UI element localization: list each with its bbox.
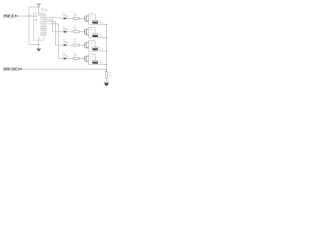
resistor R1 bbox=[73, 13, 79, 19]
svg-text:LED: LED bbox=[63, 42, 67, 44]
wire R5 to ground bbox=[105, 78, 107, 82]
pin 7 stub U1 right bbox=[44, 25, 47, 27]
pin 9 stub U1 right bbox=[44, 29, 47, 31]
transistor Q1 bbox=[85, 14, 93, 25]
pin 4 stub U1 right bbox=[44, 18, 47, 20]
wire R3 to Q3 gate bbox=[79, 44, 84, 46]
pin 10 stub U1 right bbox=[44, 31, 47, 33]
svg-text:11: 11 bbox=[45, 34, 47, 36]
hierarchical label PWM_IN bbox=[3, 15, 18, 19]
svg-text:R5: R5 bbox=[109, 73, 111, 75]
svg-text:PWM_COM_12V: PWM_COM_12V bbox=[4, 68, 23, 71]
wire branch up to VDD bbox=[29, 7, 39, 16]
svg-text:RC1: RC1 bbox=[40, 24, 43, 26]
svg-text:RC3: RC3 bbox=[40, 19, 43, 21]
node junction rail bottom bbox=[106, 69, 107, 70]
node junction rail channel 1 bbox=[106, 24, 107, 25]
op-amp U1 (microcontroller IC) bbox=[34, 13, 45, 40]
svg-text:LED: LED bbox=[63, 55, 67, 57]
connector J2 bbox=[92, 34, 102, 38]
wire J2 to rail bbox=[89, 36, 107, 39]
wire U1 pin to channel 1 bbox=[47, 17, 64, 18]
svg-text:150: 150 bbox=[74, 15, 77, 17]
pin 8 stub U1 right bbox=[44, 27, 47, 29]
wire D2 to R2 bbox=[66, 31, 73, 33]
pin 5 stub U1 right bbox=[44, 20, 47, 22]
svg-text:RC5: RC5 bbox=[40, 15, 43, 17]
connector J3 bbox=[92, 47, 102, 51]
svg-text:150: 150 bbox=[74, 55, 77, 57]
wire J3 to rail bbox=[89, 49, 107, 52]
svg-text:RC4: RC4 bbox=[40, 17, 43, 19]
svg-text:PWM_IN_5V: PWM_IN_5V bbox=[4, 15, 18, 18]
transistor Q3 bbox=[85, 41, 93, 52]
pin VSS stub U1 bottom bbox=[38, 40, 40, 44]
wire D1 to R1 bbox=[66, 17, 73, 19]
pin 6 stub U1 right bbox=[44, 23, 47, 25]
svg-text:RC0: RC0 bbox=[40, 26, 43, 28]
wire R1 to Q1 gate bbox=[79, 17, 84, 19]
wire U1 pin to channel 3 bbox=[47, 22, 64, 45]
resistor R3 bbox=[73, 40, 79, 46]
wire label to rail bbox=[20, 68, 106, 70]
wire common rail bbox=[105, 24, 107, 69]
wire Q1 drain to J1 bbox=[89, 14, 95, 20]
wire D3 to R3 bbox=[66, 44, 73, 46]
svg-text:Q2: Q2 bbox=[90, 29, 92, 31]
svg-text:10: 10 bbox=[45, 31, 47, 33]
node junction rail channel 4 bbox=[106, 64, 107, 65]
wire label to U1 pin bbox=[17, 15, 34, 17]
svg-text:150: 150 bbox=[74, 42, 77, 44]
pin 11 stub U1 right bbox=[44, 34, 47, 36]
wire R2 to Q2 gate bbox=[79, 31, 84, 33]
wire VSS to ground bbox=[38, 44, 40, 48]
LED D4 bbox=[63, 53, 68, 60]
resistor R5 bbox=[105, 72, 111, 79]
ground GND below U1 bbox=[36, 48, 41, 51]
transistor Q4 bbox=[85, 54, 93, 65]
resistor R2 bbox=[73, 26, 79, 32]
wire D4 to R4 bbox=[66, 58, 73, 60]
wire R4 to Q4 gate bbox=[79, 58, 84, 60]
svg-text:Q4: Q4 bbox=[90, 56, 92, 58]
connector J1 bbox=[92, 20, 102, 24]
wire U1 pin to channel 2 bbox=[47, 19, 64, 31]
node junction VSS bbox=[38, 44, 39, 45]
wire J1 to rail bbox=[89, 23, 107, 26]
svg-text:PIC16F: PIC16F bbox=[41, 10, 48, 12]
wire J4 to rail bbox=[89, 63, 107, 66]
node junction label branch bbox=[28, 15, 29, 16]
svg-text:LED: LED bbox=[63, 28, 67, 30]
U1 designator and value bbox=[41, 8, 48, 12]
svg-text:RC2: RC2 bbox=[40, 21, 43, 23]
wire Q2 drain to J2 bbox=[89, 27, 95, 33]
ground chassis bottom bbox=[104, 82, 109, 85]
pin 3 stub U1 right bbox=[44, 16, 47, 18]
wire Q3 drain to J3 bbox=[89, 41, 95, 47]
svg-text:150: 150 bbox=[74, 28, 77, 30]
LED D1 bbox=[63, 13, 68, 20]
pin 2 stub U1 right bbox=[44, 14, 47, 16]
svg-text:VSS: VSS bbox=[37, 38, 40, 40]
resistor R4 bbox=[73, 53, 79, 59]
node junction rail channel 2 bbox=[106, 37, 107, 38]
svg-text:1: 1 bbox=[31, 14, 32, 16]
svg-text:Q3: Q3 bbox=[90, 43, 92, 45]
wire Q4 drain to J4 bbox=[89, 54, 95, 60]
LED D3 bbox=[63, 40, 68, 47]
svg-text:10k: 10k bbox=[109, 76, 112, 78]
wire branch down around U1 to VSS bbox=[29, 16, 39, 44]
wire rail to R5 bbox=[105, 69, 107, 71]
pin 1 stub U1 left bbox=[31, 14, 34, 16]
LED D2 bbox=[63, 26, 68, 33]
wire U1 pin to channel 4 bbox=[47, 24, 64, 59]
node junction rail channel 3 bbox=[106, 50, 107, 51]
power symbol VDD bbox=[37, 4, 42, 13]
transistor Q2 bbox=[85, 27, 93, 38]
connector J4 bbox=[92, 60, 102, 64]
hierarchical label COM_12V bbox=[3, 68, 22, 71]
svg-text:LED: LED bbox=[63, 15, 67, 17]
svg-text:Q1: Q1 bbox=[90, 16, 92, 18]
